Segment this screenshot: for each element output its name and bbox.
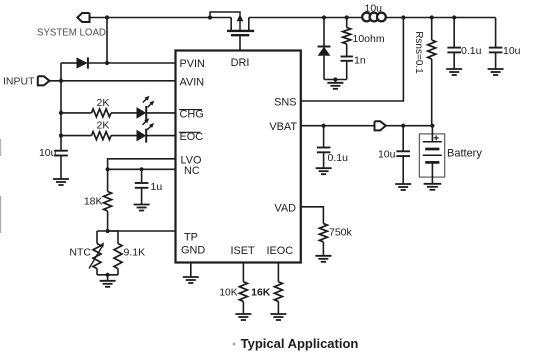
ground below 10K xyxy=(235,314,251,320)
LED D3 CHG xyxy=(137,106,147,120)
connector INPUT (points right) xyxy=(38,76,50,85)
ground below 16K xyxy=(270,314,286,320)
battery BT1 box xyxy=(419,134,444,177)
node junction LVO-NC xyxy=(106,167,110,171)
label 10u rail xyxy=(503,45,521,57)
label INPUT xyxy=(3,76,35,88)
svg-text:1n: 1n xyxy=(354,55,366,67)
label 1n xyxy=(354,55,366,67)
label 10K xyxy=(219,288,237,299)
wire CHG row mid xyxy=(111,112,137,114)
capacitor C 10u rail xyxy=(489,18,503,70)
transistor Q1 PMOS drain lead xyxy=(248,18,250,31)
transistor Q1 PMOS gate plate xyxy=(231,34,249,36)
svg-text:SNS: SNS xyxy=(274,97,296,109)
label Rsns=0.1 xyxy=(413,31,424,74)
ground below 0.1u rail xyxy=(446,69,462,75)
wire NC row xyxy=(108,168,176,170)
node junction thermistor ground xyxy=(106,273,110,277)
pin label AVIN xyxy=(180,76,205,88)
ground below 0.1u VBAT xyxy=(316,168,332,174)
label NTC xyxy=(69,246,91,258)
ground below 1u xyxy=(134,205,150,211)
ground below 10u input xyxy=(53,179,69,185)
svg-text:Rsns=0.1: Rsns=0.1 xyxy=(413,31,424,74)
wire TP row xyxy=(108,230,176,232)
svg-text:10u: 10u xyxy=(365,2,383,14)
node junction snubber xyxy=(345,15,349,19)
wire input bus vertical xyxy=(60,63,62,151)
svg-text:GND: GND xyxy=(181,245,205,257)
capacitor C 1n xyxy=(341,57,353,80)
capacitor C 10u input xyxy=(54,151,68,179)
LED D4 emission arrows xyxy=(143,118,155,130)
wire LVO xyxy=(108,159,176,170)
resistor 18K xyxy=(104,169,112,231)
svg-text:9.1K: 9.1K xyxy=(124,246,146,258)
svg-text:IEOC: IEOC xyxy=(266,245,293,257)
svg-text:10u: 10u xyxy=(378,149,396,161)
thermistor NTC xyxy=(93,231,101,275)
node junction battery top xyxy=(430,124,434,128)
svg-text:Battery: Battery xyxy=(447,148,482,160)
diode D1 input diode xyxy=(77,57,88,68)
node junction TP divider xyxy=(106,229,110,233)
ground below 10u rail xyxy=(488,69,504,75)
wire CHG row left xyxy=(61,112,92,114)
svg-text:0.1u: 0.1u xyxy=(328,152,349,164)
svg-text:SYSTEM LOAD: SYSTEM LOAD xyxy=(37,28,106,39)
svg-text:16K: 16K xyxy=(251,287,271,299)
svg-text:ISET: ISET xyxy=(230,245,255,257)
capacitor C 0.1u rail xyxy=(447,18,461,70)
wire AVIN row xyxy=(50,80,176,82)
svg-text:NTC: NTC xyxy=(69,246,91,258)
pin label SNS xyxy=(274,97,296,109)
node junction C0.1u VBAT xyxy=(322,124,326,128)
ground below thermistor xyxy=(100,281,116,287)
capacitor C 10u VBAT xyxy=(396,126,410,184)
wire VBAT right xyxy=(386,125,433,127)
transistor Q1 PMOS body wire xyxy=(210,12,240,18)
svg-text:EOC: EOC xyxy=(180,131,204,143)
label 0.1u rail xyxy=(461,45,482,57)
svg-text:PVIN: PVIN xyxy=(180,58,205,70)
label SYSTEM LOAD xyxy=(37,28,106,39)
svg-text:10ohm: 10ohm xyxy=(353,33,385,45)
label 1u xyxy=(151,181,163,193)
node junction C10u VBAT xyxy=(401,124,405,128)
pin label PVIN xyxy=(180,58,205,70)
pin label IEOC xyxy=(266,245,293,257)
wire EOC row right xyxy=(146,135,175,137)
label 10ohm xyxy=(353,33,385,45)
node junction PMOS body tap xyxy=(208,15,212,19)
pin label CHG with overline xyxy=(179,108,204,120)
connector SYSTEM LOAD (points left) xyxy=(77,13,89,22)
ground below 10u VBAT xyxy=(395,184,411,190)
thermistor NTC arrow xyxy=(89,242,104,268)
node junction PVIN xyxy=(105,61,109,65)
wire top rail left segment xyxy=(90,17,232,19)
diode D2 catch diode xyxy=(318,18,331,80)
pin label DRI xyxy=(231,57,250,69)
wire SNS feedback xyxy=(301,18,404,102)
transistor Q1 PMOS source lead xyxy=(230,18,232,31)
node junction input bus xyxy=(59,79,63,83)
pin label VBAT xyxy=(269,121,297,133)
node junction bus CHG xyxy=(59,111,63,115)
resistor R 2K (EOC) xyxy=(92,132,112,140)
ground below GND pin xyxy=(183,277,199,283)
wire PVIN right xyxy=(88,62,176,64)
wire top rail middle segment xyxy=(249,17,362,19)
transistor Q1 PMOS channel plate xyxy=(227,30,254,32)
svg-text:10u: 10u xyxy=(503,45,521,57)
wire top rail right segment xyxy=(386,17,496,19)
label 2K EOC xyxy=(97,120,110,132)
battery BT1 plus mark xyxy=(434,135,439,140)
resistor Rsns xyxy=(428,18,436,126)
capacitor C 0.1u VBAT xyxy=(317,126,331,169)
op-amp/charger IC U1 body xyxy=(176,51,301,263)
resistor 10ohm xyxy=(343,18,351,57)
pin label LVO xyxy=(181,154,202,166)
resistor 10K xyxy=(239,263,247,315)
wire EOC row left xyxy=(61,135,92,137)
svg-text:750k: 750k xyxy=(329,227,353,239)
node junction catch-diode xyxy=(322,15,326,19)
svg-text:CHG: CHG xyxy=(180,108,204,120)
node junction system-load drop xyxy=(105,15,109,19)
transistor Q1 PMOS body arrow xyxy=(237,14,244,31)
pin label ISET xyxy=(230,245,255,257)
inductor L1 10u xyxy=(362,13,386,22)
svg-text:10u: 10u xyxy=(39,147,57,159)
wire VAD xyxy=(301,207,324,224)
label 10u VBAT xyxy=(378,149,396,161)
label Battery xyxy=(447,148,482,160)
svg-text:AVIN: AVIN xyxy=(180,76,205,88)
wire thermistor ground stub xyxy=(107,275,109,281)
node junction SNS riser xyxy=(401,15,405,19)
pin label VAD xyxy=(274,202,296,214)
svg-text:DRI: DRI xyxy=(231,57,250,69)
pin label GND xyxy=(181,245,205,257)
svg-text:0.1u: 0.1u xyxy=(461,45,482,57)
node junction Rsns top xyxy=(430,15,434,19)
svg-text:18K: 18K xyxy=(84,196,103,208)
pin label TP xyxy=(184,232,198,244)
svg-text:VAD: VAD xyxy=(274,202,296,214)
wire EOC row mid xyxy=(111,135,137,137)
ground below battery xyxy=(424,184,442,190)
svg-text:TP: TP xyxy=(184,232,198,244)
wire CHG row right xyxy=(146,112,175,114)
svg-text:Typical Application: Typical Application xyxy=(241,336,359,351)
capacitor C 1u xyxy=(135,169,149,204)
label 18K xyxy=(84,196,103,208)
svg-text:NC: NC xyxy=(184,165,200,177)
label 2K CHG xyxy=(97,97,110,109)
node junction bus EOC xyxy=(59,134,63,138)
node junction C-0.1u rail xyxy=(452,15,456,19)
wire VBAT left xyxy=(301,125,375,127)
wire snubber bottom xyxy=(324,79,347,81)
svg-text:2K: 2K xyxy=(97,120,110,132)
LED D4 EOC xyxy=(137,129,147,143)
svg-text:2K: 2K xyxy=(97,97,110,109)
svg-text:INPUT: INPUT xyxy=(3,76,35,88)
LED D3 emission arrows xyxy=(143,96,155,108)
wire gate to DRI pin xyxy=(239,35,241,50)
battery BT1 cells xyxy=(423,126,442,184)
ground below 750k xyxy=(315,256,331,262)
wire GND pin lead xyxy=(190,263,192,278)
caption Typical Application xyxy=(241,336,359,351)
svg-text:10K: 10K xyxy=(219,288,237,299)
ground below catch diode xyxy=(327,83,343,89)
pin label EOC with overline xyxy=(179,131,203,143)
node junction snubber ground xyxy=(333,77,337,81)
label 16K xyxy=(251,287,271,299)
resistor 750k xyxy=(319,224,327,256)
wire PVIN left xyxy=(61,62,77,64)
wire snubber ground stub xyxy=(334,80,336,83)
wire system-load vertical drop xyxy=(106,18,108,64)
label 0.1u VBAT xyxy=(328,152,349,164)
node junction 1u tap xyxy=(140,167,144,171)
label 10u inductor xyxy=(365,2,383,14)
svg-text:1u: 1u xyxy=(151,181,163,193)
label 9.1K xyxy=(124,246,146,258)
wire thermistor top rail xyxy=(97,230,118,232)
svg-text:VBAT: VBAT xyxy=(269,121,297,133)
label 750k xyxy=(329,227,353,239)
resistor 16K xyxy=(274,263,282,315)
resistor R 2K (CHG) xyxy=(92,109,112,117)
resistor 9.1K xyxy=(114,231,122,275)
label 10u input xyxy=(39,147,57,159)
wire thermistor bottom rail xyxy=(97,274,118,276)
pin label NC xyxy=(184,165,200,177)
connector VBAT tag (points right) xyxy=(375,121,386,130)
